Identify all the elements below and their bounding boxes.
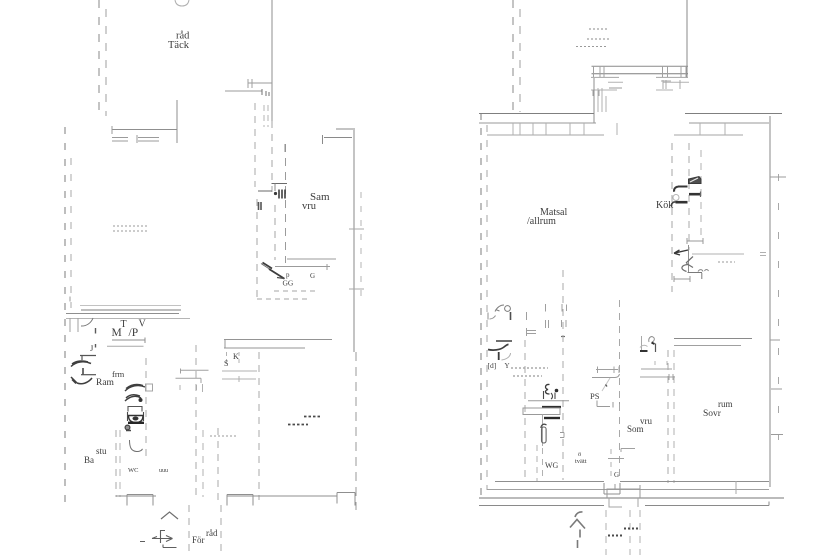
deck left dashed boundary (inner): [105, 0, 107, 116]
wall vertical x177: [176, 100, 178, 143]
dark bar under counter: [544, 417, 560, 419]
wall cross tick 1: [349, 228, 364, 230]
mullion ticks grid: [527, 304, 567, 336]
svg-text:rum: rum: [718, 399, 733, 409]
dashed vert x149: [145, 358, 147, 462]
wall side dashes: [760, 253, 766, 256]
svg-text:V: V: [139, 319, 147, 330]
window ticks top: [513, 123, 725, 135]
svg-text:J: J: [90, 343, 94, 353]
sink S curl: [545, 384, 549, 394]
deck dim text row1: [589, 28, 608, 30]
svg-text:ö: ö: [578, 451, 581, 458]
entry caret: [161, 512, 178, 519]
wall bracket right of G: [621, 449, 635, 453]
door swing arc upper: [125, 385, 145, 392]
kitchen counter line: [692, 253, 744, 255]
wc partition vertical: [542, 415, 544, 447]
toilet base dark: [128, 422, 144, 424]
kitchen dashed vert 1: [671, 143, 673, 292]
door swoosh lower: [71, 377, 92, 384]
door lintel upper: [80, 355, 96, 360]
wall under MP line1: [112, 338, 145, 344]
dark fixtures left lower: [125, 384, 153, 430]
labels right plan: [527, 200, 733, 481]
dashed vert x563: [562, 270, 564, 480]
main top wall right seg: [685, 113, 782, 115]
arrowhead: [277, 278, 284, 279]
fixture loop: [649, 337, 655, 342]
deck step ticks: [248, 79, 252, 88]
dotted dim row1 dark: [304, 416, 320, 418]
wc toilet curl: [541, 424, 547, 428]
room Sam left dashed wall: [285, 144, 287, 263]
svg-text:G: G: [614, 471, 619, 479]
dim text rows upper: [113, 226, 149, 231]
fixture dark bar: [640, 350, 648, 352]
svg-text:Sovr: Sovr: [703, 409, 722, 419]
toilet sides: [128, 412, 144, 421]
dark door swoosh: [488, 344, 509, 350]
svg-text:För: För: [192, 535, 205, 545]
svg-text:WG: WG: [545, 461, 559, 470]
counter top line: [528, 400, 569, 402]
svg-text:G: G: [310, 272, 315, 280]
svg-text:WC: WC: [128, 467, 138, 474]
wall under MP line2: [107, 345, 144, 347]
room Sam top wall line2: [323, 135, 353, 144]
dashed vert x203: [202, 430, 204, 497]
deck rail line3: [591, 76, 688, 78]
svg-text:Täck: Täck: [168, 40, 190, 51]
hall dashed vertical: [256, 199, 258, 299]
dark jamb tick: [498, 352, 500, 360]
bar C end tick: [700, 192, 702, 198]
deck dashed pair outer: [512, 0, 514, 112]
hook B thick: [674, 187, 687, 192]
bay wall marks: [598, 88, 606, 112]
dark tick pair: [259, 202, 262, 210]
deck right wall top: [686, 0, 688, 78]
kitchen dark fixtures: [672, 177, 701, 256]
room Sam bottom line2: [275, 264, 330, 270]
wc dashes pair: [537, 445, 543, 481]
door lintel lower: [81, 374, 96, 376]
door swing arc lower: [125, 395, 141, 401]
sink tick top: [126, 430, 131, 432]
K dashes below: [227, 352, 240, 366]
deck rail line2: [592, 73, 689, 75]
hall shelf line: [608, 458, 624, 460]
svg-text:[d]: [d]: [488, 361, 497, 370]
dim rows small: [511, 368, 548, 376]
counter line upper: [180, 369, 209, 374]
right tick 3: [771, 434, 783, 436]
PS tick dark: [606, 385, 608, 387]
deck dim text row3: [576, 46, 607, 48]
PS diagonal faint: [602, 378, 610, 391]
hall dashes above: [655, 361, 667, 368]
entry arrow right: [570, 512, 585, 548]
bottom wall seg1: [116, 495, 156, 497]
kitchen dashed vert 3: [700, 150, 702, 240]
wc toilet bowl elongated: [542, 427, 547, 443]
bar D: [676, 201, 688, 204]
deck rail line5: [591, 89, 673, 91]
small dark ticks x95: [95, 328, 97, 348]
kitchen vertical jamb: [688, 245, 690, 273]
entry arrow: [140, 530, 177, 548]
door jamb connector: [274, 184, 276, 192]
dashed row 2 below room: [257, 298, 308, 300]
tiny curls: [698, 270, 709, 272]
door hinge dot: [274, 192, 277, 195]
porch dashed verts: [606, 510, 640, 555]
porch below: [609, 498, 638, 507]
door arc upper-left room: [495, 305, 504, 312]
wall mid-left double line1: [81, 309, 181, 311]
bottom wall seg2: [227, 495, 337, 497]
svg-text:Ba: Ba: [84, 455, 94, 465]
fixture vertical right: [655, 344, 657, 353]
deck step line lower: [225, 90, 262, 92]
bottom tick: [735, 481, 737, 494]
wall start tick: [69, 297, 71, 302]
deck mid dashed vertical: [254, 103, 256, 187]
dashed vert x116: [115, 430, 117, 497]
fixture dark dot: [652, 343, 655, 345]
deck rail line4: [608, 81, 689, 83]
svg-text:vru: vru: [302, 201, 317, 212]
right wall solid: [769, 116, 771, 487]
dashed vert x525: [524, 340, 526, 480]
left dashed wall: [480, 113, 482, 495]
ticks near left: [70, 318, 78, 332]
svg-text:råd: råd: [206, 528, 218, 538]
floor drain circle: [125, 425, 130, 430]
right wall lower dashed: [355, 352, 357, 510]
bottom line2: [487, 489, 769, 491]
deck mid short dashes: [264, 105, 268, 127]
dashed vert x254: [258, 352, 260, 500]
second top line left: [479, 122, 596, 124]
svg-text:stu: stu: [96, 446, 107, 456]
counter outline: [523, 408, 560, 415]
outer dashed strip: [360, 192, 362, 300]
window line seg2: [137, 135, 159, 143]
right outer dashed: [778, 174, 780, 440]
dark dotted row1: [624, 528, 638, 530]
sill bracket bottom: [604, 483, 620, 494]
room Sam top wall line1: [336, 128, 353, 130]
bracket below PS: [597, 401, 620, 408]
room Sam right wall: [353, 128, 355, 352]
stair arrow leaf (diagonal): [261, 264, 284, 279]
sill bracket 1: [127, 495, 153, 506]
door opening line: [258, 190, 272, 192]
svg-text:tvätt: tvätt: [575, 458, 587, 465]
door tip dark: [139, 398, 143, 402]
wall mid-left double line2: [66, 313, 179, 315]
deck rail line1: [592, 65, 689, 67]
counter line lower: [176, 378, 202, 383]
svg-text:Y: Y: [505, 362, 510, 370]
toilet eye: [133, 417, 139, 421]
counter ticks: [180, 384, 203, 392]
hall shelf ticks: [610, 449, 612, 476]
sill bracket 2: [227, 495, 253, 506]
door leaf marks: [686, 257, 693, 268]
door head line: [272, 183, 288, 185]
svg-text:/allrum: /allrum: [527, 216, 556, 227]
labels left plan lower: [84, 319, 239, 546]
kitchen bracket 1: [687, 238, 703, 244]
entry dashed vert 1: [188, 505, 190, 555]
wall mid-left faint lower: [66, 318, 190, 320]
house left dashed wall: [64, 127, 66, 503]
wall top-left horizontal: [112, 129, 177, 131]
hall line lower: [640, 374, 675, 380]
svg-text:uuu: uuu: [159, 468, 168, 474]
room Sam left wall top tick: [284, 144, 286, 152]
fixture curl: [640, 345, 648, 347]
third top line right: [674, 134, 743, 136]
right tick 4: [771, 388, 782, 390]
wall cross tick 2: [349, 288, 364, 290]
porch box: [607, 484, 640, 498]
door curl: [682, 265, 688, 272]
counter dark line: [542, 406, 561, 408]
sink curve bath: [130, 440, 143, 452]
hall dashed vertical2: [274, 205, 276, 260]
fixture vertical left: [641, 336, 643, 352]
svg-text:/P: /P: [129, 327, 139, 339]
svg-text:Som: Som: [627, 424, 644, 434]
sill line short: [688, 273, 703, 280]
wall x272 dashed continuation: [271, 121, 273, 192]
terrace line 2: [479, 502, 769, 506]
bottom inner wall seg2: [620, 481, 769, 483]
stove dark shape: [689, 177, 702, 184]
mid wall line1: [674, 338, 752, 340]
faint door arc: [502, 353, 511, 360]
cistern: [128, 407, 142, 412]
dotted dim row2 dark: [288, 424, 308, 426]
dark dotted row2: [608, 535, 623, 537]
main top wall left seg: [479, 113, 594, 115]
kitchen dashed vert 2: [688, 143, 690, 250]
svg-text:M: M: [112, 327, 122, 339]
deck dim text row2: [587, 38, 610, 40]
deck step dark end marks: [262, 89, 269, 96]
sill bracket 3: [337, 493, 355, 506]
door knob circle: [505, 306, 511, 312]
burner circle: [673, 195, 679, 201]
deck top curve mark: [175, 0, 189, 6]
stair dotted: [718, 261, 735, 263]
shelf line C: [222, 371, 257, 382]
svg-text:Ram: Ram: [96, 378, 115, 388]
dark details left plan upper: [258, 184, 287, 279]
svg-text:Kök: Kök: [656, 200, 673, 211]
entry dashed vert 2: [220, 505, 222, 555]
stove highlight: [690, 178, 698, 182]
room Sam bottom line1: [287, 258, 336, 260]
deck rail ticks: [593, 66, 686, 96]
door jamb tick: [82, 368, 84, 375]
door jamb dark tick: [510, 312, 512, 320]
dashed vert x674: [673, 350, 675, 483]
deck dashed pair inner: [519, 0, 521, 112]
third top line left: [487, 134, 604, 136]
small bracket right: [560, 433, 564, 438]
right tick 1: [770, 176, 786, 178]
dark lintel line: [496, 340, 512, 342]
door jamb curl: [488, 313, 496, 320]
bay right marks: [661, 80, 680, 89]
kitchen bracket 2: [674, 276, 690, 282]
deck right wall: [271, 0, 273, 121]
door swoosh upper: [71, 361, 91, 367]
right plan mid dark fixtures: [488, 341, 570, 446]
second top line right: [689, 122, 769, 124]
dotted dim small: [210, 435, 238, 437]
svg-text:K: K: [233, 352, 239, 361]
sink bracket sides: [544, 391, 556, 399]
toilet bowl: [128, 416, 144, 423]
dashed vert x622: [619, 300, 621, 480]
svg-text:PS: PS: [590, 391, 600, 401]
small door arc: [81, 318, 93, 326]
door hinge strokes III: [279, 190, 285, 199]
wall tick left: [111, 126, 113, 134]
terrace line dark: [479, 497, 784, 499]
bottom inner wall seg1: [495, 481, 604, 483]
bar C: [689, 193, 700, 196]
mid wall line2: [674, 345, 741, 347]
wall K horizontal double: [224, 340, 332, 349]
dashed vert x668: [667, 350, 669, 483]
bay left wall: [593, 78, 595, 123]
hall line upper: [641, 368, 672, 370]
svg-text:S: S: [224, 359, 228, 368]
dashed row below room: [274, 290, 319, 292]
arrow to door (dark, pointing left): [674, 250, 688, 255]
right tick 2: [770, 339, 780, 341]
bay top line: [609, 87, 622, 89]
bar D curl: [672, 202, 676, 207]
small dark tick: [561, 336, 565, 338]
sink dot: [555, 389, 559, 393]
dashed vert x120: [119, 430, 121, 497]
inner dashed wall: [70, 150, 72, 308]
dashed vert x196: [195, 345, 197, 497]
left dashed wall inner: [486, 118, 488, 490]
cabinet PS curve: [592, 374, 620, 378]
deck step line upper: [248, 82, 272, 84]
deck left dashed boundary (outer): [98, 0, 100, 116]
svg-text:GG: GG: [283, 279, 294, 288]
wall mid-left faint upper: [80, 305, 181, 307]
cabinet PS top: [596, 367, 619, 374]
small rect beside door: [146, 384, 153, 391]
dashed vert x218: [217, 428, 219, 500]
stair arrow leaf thick part: [263, 263, 285, 279]
window line seg1: [112, 138, 128, 142]
labels left plan upper: [168, 31, 330, 288]
